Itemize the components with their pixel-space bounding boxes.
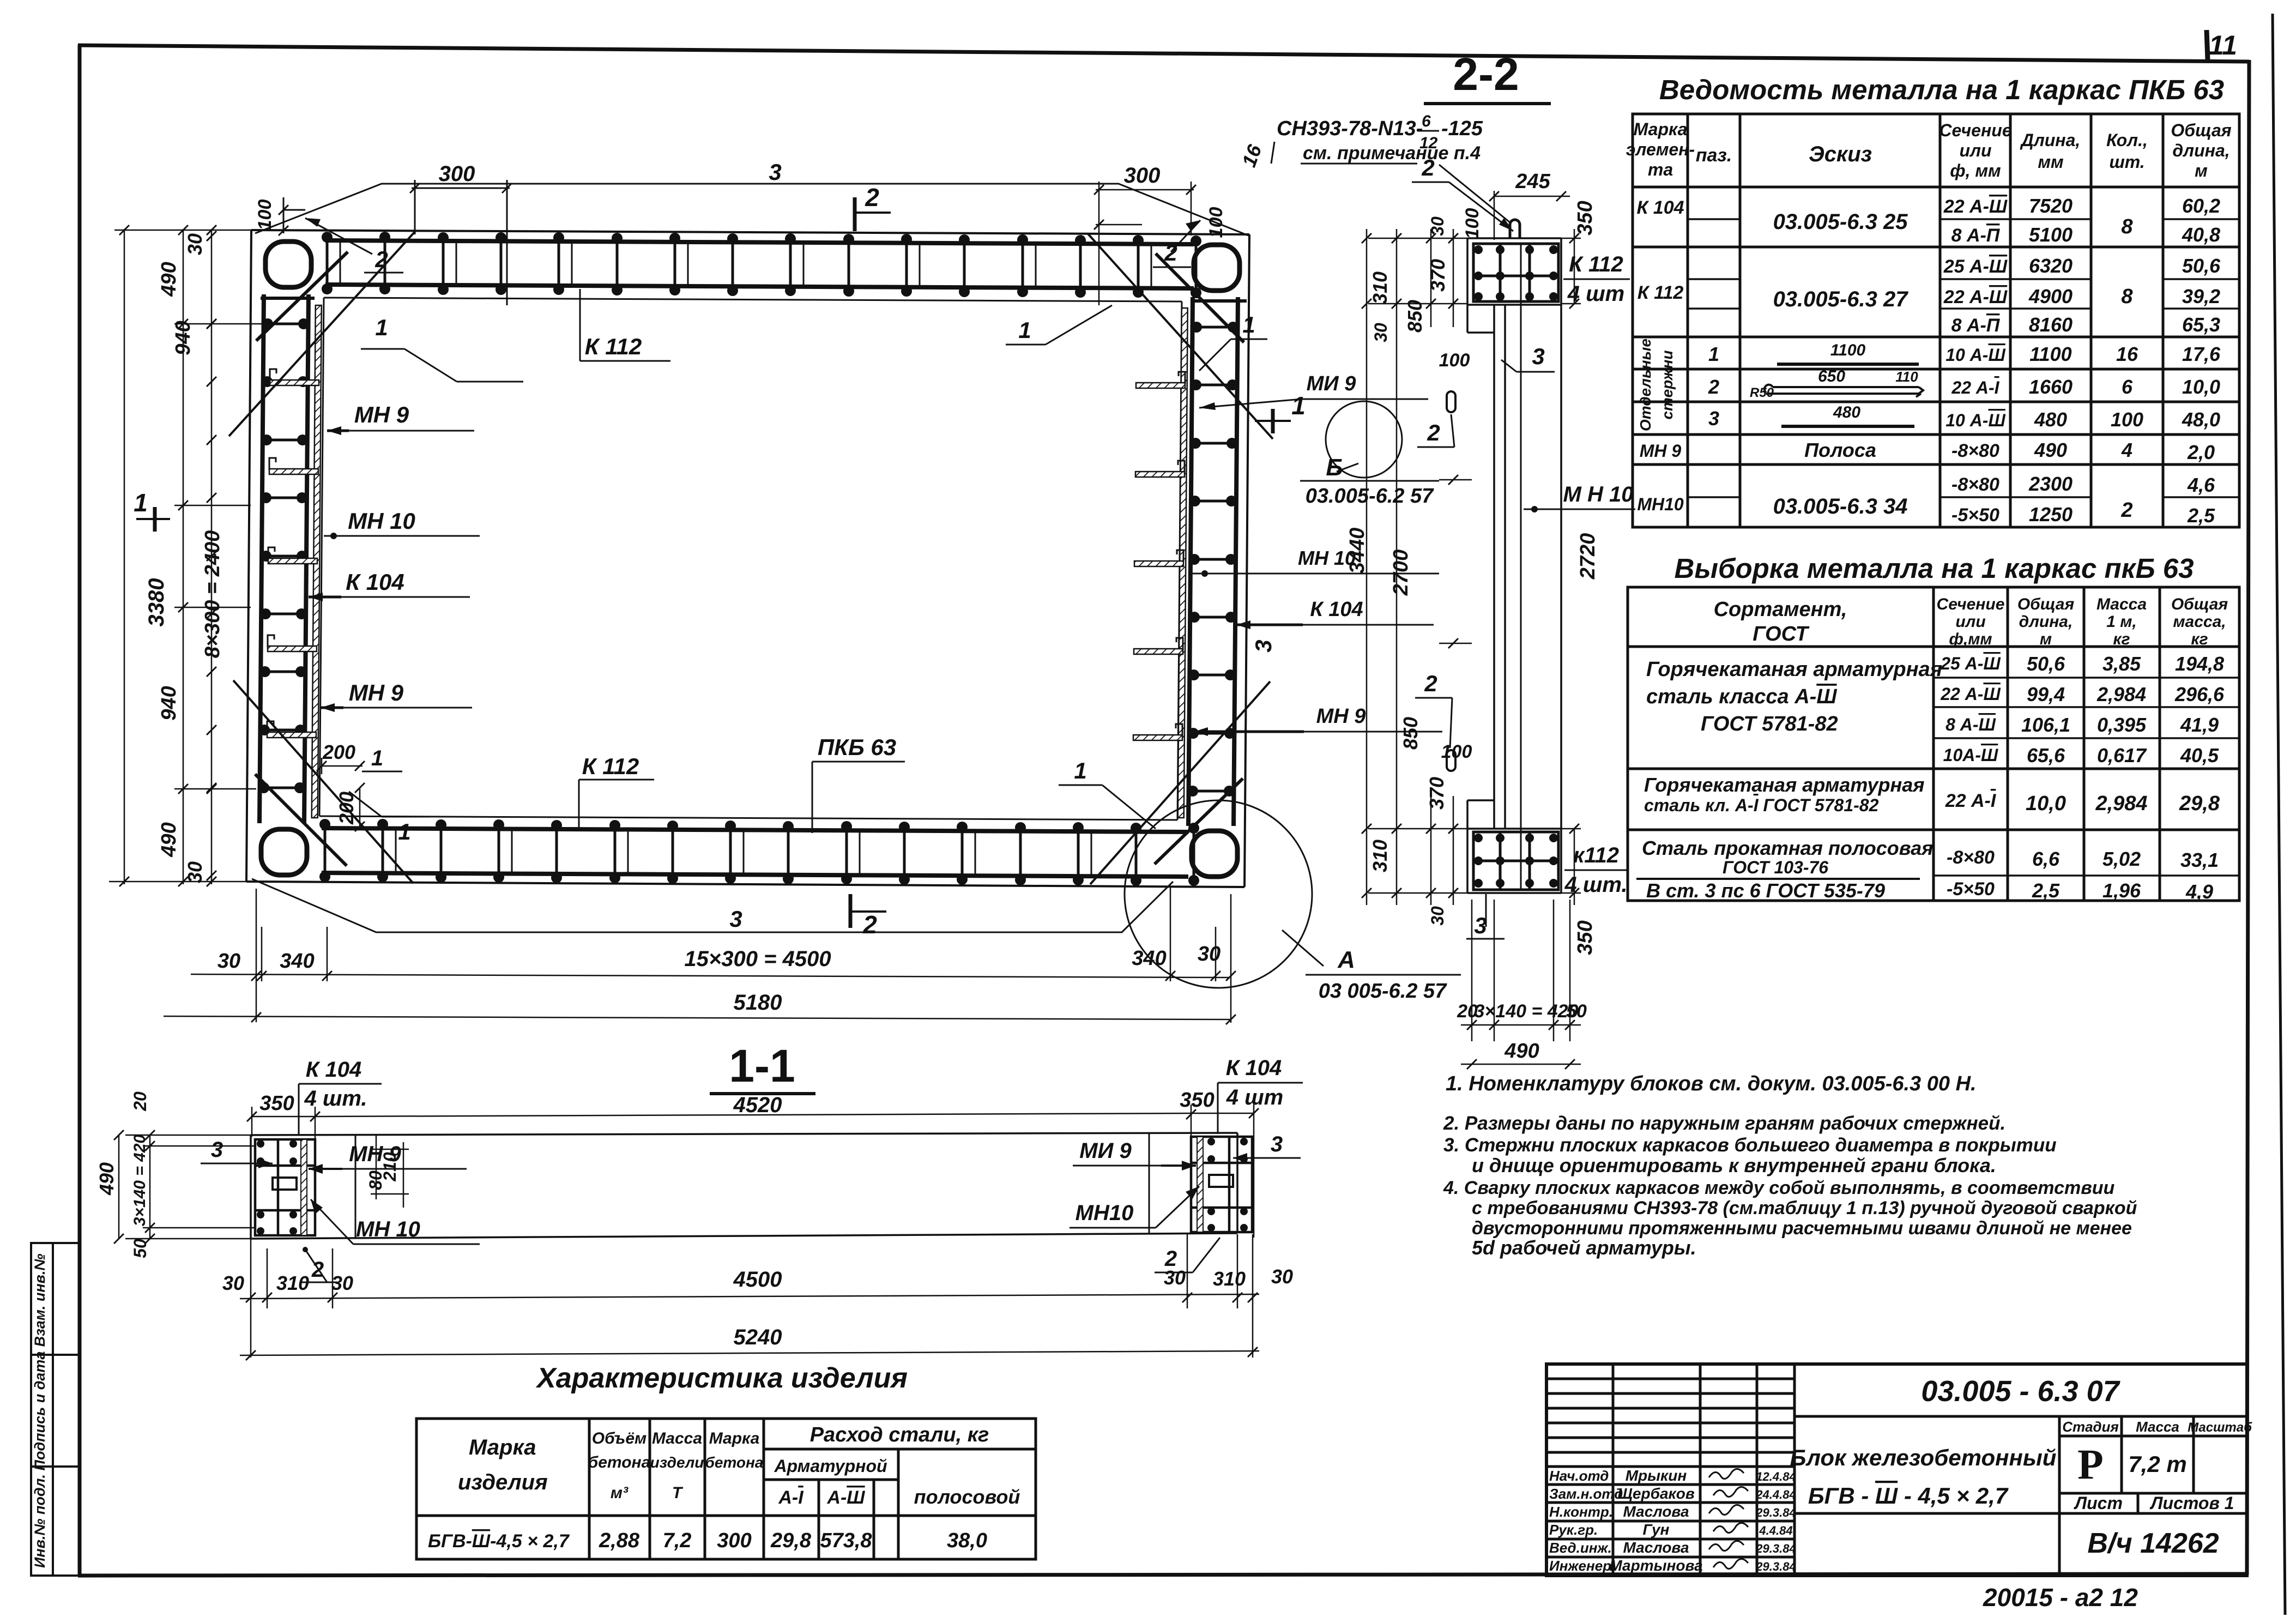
svg-text:МН10: МН10	[1637, 494, 1684, 514]
svg-text:сталь кл. А-I ГОСТ 5781-82: сталь кл. А-I ГОСТ 5781-82	[1644, 795, 1879, 815]
svg-text:20015 - а2 12: 20015 - а2 12	[1983, 1583, 2138, 1612]
svg-text:МН10: МН10	[1076, 1201, 1134, 1225]
svg-text:1: 1	[1074, 758, 1086, 783]
svg-text:100: 100	[2111, 408, 2143, 431]
label 1 top-left	[361, 315, 523, 382]
label PKB 63	[812, 734, 905, 833]
title block signatures	[1549, 1467, 1796, 1574]
svg-text:17,6: 17,6	[2182, 343, 2221, 365]
svg-text:к112: к112	[1573, 843, 1619, 867]
svg-text:310: 310	[1369, 271, 1391, 304]
svg-text:Сталь прокатная полосовая: Сталь прокатная полосовая	[1642, 837, 1933, 859]
svg-text:1: 1	[371, 746, 383, 770]
svg-text:Полоса: Полоса	[1804, 439, 1876, 461]
svg-text:МН 9: МН 9	[349, 680, 404, 705]
svg-text:100: 100	[255, 200, 275, 231]
svg-text:30: 30	[1428, 216, 1447, 236]
s11 cage separators	[355, 1134, 1149, 1239]
svg-text:длина,: длина,	[2172, 141, 2229, 160]
plan 8x300 chain ticks	[207, 319, 216, 793]
svg-text:8160: 8160	[2029, 313, 2073, 336]
svg-text:ГОСТ 5781-82: ГОСТ 5781-82	[1701, 713, 1838, 735]
svg-text:0,617: 0,617	[2097, 744, 2147, 767]
svg-text:490: 490	[2034, 439, 2067, 461]
table row K104	[1636, 195, 2220, 246]
svg-text:Щербаков: Щербаков	[1617, 1485, 1695, 1502]
svg-text:850: 850	[1399, 717, 1422, 750]
svg-text:МН 9: МН 9	[1640, 441, 1682, 461]
svg-text:7,2: 7,2	[663, 1529, 692, 1552]
svg-text:Сечение: Сечение	[1939, 120, 2011, 140]
svg-text:2-2: 2-2	[1453, 49, 1519, 100]
svg-text:110: 110	[1895, 369, 1918, 385]
svg-text:3: 3	[1532, 343, 1544, 369]
svg-text:15×300 = 4500: 15×300 = 4500	[684, 947, 831, 971]
svg-text:А: А	[1337, 946, 1355, 973]
svg-text:4 шт: 4 шт	[1226, 1085, 1284, 1109]
svg-text:3: 3	[1271, 1132, 1283, 1156]
svg-text:2: 2	[1427, 420, 1440, 445]
svg-text:МИ 9: МИ 9	[1307, 372, 1356, 395]
svg-text:22 А-I: 22 А-I	[1951, 378, 1999, 397]
s22 bottom cage K112	[1473, 832, 1558, 890]
table Vedomost headers	[1626, 119, 2232, 180]
label 2 top-left	[305, 218, 403, 273]
s22 left dim chains	[1367, 229, 1472, 905]
plan inner edge left	[319, 298, 324, 816]
svg-text:2,984: 2,984	[2095, 792, 2147, 815]
s22 right dim chain	[1561, 229, 1581, 905]
plan bar 3 outline top	[255, 184, 1248, 236]
svg-text:БГВ-Ш-4,5 × 2,7: БГВ-Ш-4,5 × 2,7	[428, 1531, 570, 1552]
plan bottom band stirrups and bar dots	[319, 819, 1199, 886]
plan inner edge right	[1177, 301, 1182, 820]
svg-text:3: 3	[1250, 639, 1276, 652]
svg-text:ПКБ 63: ПКБ 63	[818, 734, 896, 760]
svg-text:Гун: Гун	[1643, 1521, 1670, 1538]
svg-text:65,6: 65,6	[2027, 744, 2065, 767]
s11 right end cage K104	[1191, 1137, 1252, 1232]
svg-text:50: 50	[130, 1239, 150, 1258]
plan top band bar upper	[325, 240, 1194, 244]
svg-text:м: м	[2040, 630, 2052, 648]
svg-text:5100: 5100	[2029, 224, 2073, 246]
svg-text:элемен-: элемен-	[1626, 140, 1695, 159]
label MN10 right	[1191, 547, 1439, 577]
svg-text:100: 100	[1439, 350, 1470, 371]
svg-text:2. Размеры даны по наружным гр: 2. Размеры даны по наружным граням рабоч…	[1443, 1113, 2005, 1134]
sheet frame top border	[78, 45, 2249, 62]
sheet frame right border	[2247, 60, 2249, 1575]
plan corner loop bottom-left	[261, 829, 307, 875]
svg-text:МН 9: МН 9	[354, 402, 409, 427]
svg-text:6,6: 6,6	[2032, 848, 2060, 870]
s22 label 2 top	[1412, 155, 1513, 231]
svg-text:8×300 = 2400: 8×300 = 2400	[201, 530, 224, 659]
svg-text:1: 1	[134, 488, 148, 517]
svg-text:30: 30	[1198, 943, 1220, 966]
s22 label K112 bottom	[1564, 843, 1629, 897]
svg-text:бетона: бетона	[588, 1453, 651, 1471]
table row 25A-III	[1940, 653, 2224, 675]
svg-text:Р: Р	[2077, 1440, 2104, 1488]
svg-text:03.005-6.3 34: 03.005-6.3 34	[1773, 494, 1908, 518]
svg-text:3: 3	[769, 159, 781, 185]
table row -5x50	[1947, 879, 2213, 903]
plan top dim lines	[283, 180, 510, 305]
sheet frame left border	[78, 45, 82, 1576]
svg-text:48,0: 48,0	[2182, 408, 2220, 431]
table row K112	[1638, 255, 2221, 336]
svg-text:Листов 1: Листов 1	[2150, 1493, 2234, 1513]
page number tick	[2207, 30, 2208, 60]
svg-text:Объём: Объём	[592, 1429, 646, 1447]
plan inner edge top	[324, 298, 1182, 301]
label 1 bottom-right	[1059, 758, 1156, 829]
svg-text:стержни: стержни	[1659, 350, 1676, 419]
title block grid	[1546, 1364, 2247, 1576]
svg-text:Выборка металла на 1 карка: Выборка металла на 1 каркас пкБ 63	[1675, 553, 2194, 584]
svg-text:7,2 т: 7,2 т	[2128, 1451, 2186, 1477]
svg-text:296,6: 296,6	[2174, 683, 2225, 705]
svg-text:10 А-Ш: 10 А-Ш	[1945, 411, 2005, 430]
svg-text:573,8: 573,8	[820, 1529, 872, 1552]
svg-text:39,2: 39,2	[2182, 285, 2220, 307]
plan left band channel embeds	[267, 369, 319, 738]
svg-text:Маслова: Маслова	[1623, 1539, 1689, 1556]
table row bar3	[1708, 407, 2220, 431]
svg-text:1. Номенклатуру блоков: 1. Номенклатуру блоков см. докум. 03.005…	[1446, 1072, 1977, 1095]
svg-text:К 104: К 104	[1636, 197, 1684, 218]
sheet cut edge right	[2273, 14, 2285, 1615]
svg-text:мм: мм	[2038, 152, 2064, 172]
svg-text:5180: 5180	[734, 991, 782, 1015]
svg-text:30: 30	[184, 233, 206, 255]
svg-text:80: 80	[366, 1171, 385, 1190]
plan left band bar outer	[259, 294, 264, 823]
svg-text:3: 3	[211, 1138, 223, 1162]
s11 label K104 right	[1218, 1056, 1303, 1134]
svg-text:Сечение: Сечение	[1937, 595, 2005, 613]
plan top band stirrups and bar dots	[322, 232, 1201, 298]
svg-text:29.3.84: 29.3.84	[1755, 1560, 1796, 1573]
svg-text:03 005-6.2 57: 03 005-6.2 57	[1319, 980, 1447, 1003]
svg-text:Нач.отд: Нач.отд	[1549, 1468, 1609, 1484]
plan left band ladder rungs	[258, 318, 309, 793]
svg-text:8 А-П: 8 А-П	[1951, 315, 2001, 336]
svg-text:100: 100	[1206, 207, 1226, 238]
label 1 at 200 dim	[362, 746, 402, 771]
svg-text:22 А-Ш: 22 А-Ш	[1943, 196, 2008, 217]
svg-text:2,0: 2,0	[2187, 441, 2215, 463]
svg-text:Т: Т	[672, 1484, 684, 1502]
table Vyborka grid	[1628, 587, 2239, 901]
svg-text:Мартынова: Мартынова	[1609, 1557, 1702, 1574]
svg-text:3. Стержни плоских каркасов бо: 3. Стержни плоских каркасов большего диа…	[1443, 1135, 2057, 1156]
svg-text:100: 100	[1462, 208, 1483, 239]
s22 top cage K112	[1473, 244, 1558, 301]
table row 8A-III	[1945, 714, 2219, 736]
svg-text:А-Ш: А-Ш	[826, 1487, 865, 1508]
s22 bottom dims	[1461, 900, 1581, 1064]
svg-text:22 А-Ш: 22 А-Ш	[1940, 684, 2001, 704]
plan bottom band bar lower	[322, 873, 1188, 877]
s11 label 3 right	[1233, 1132, 1301, 1163]
svg-text:Горячекатаная арматурная: Горячекатаная арматурная	[1644, 774, 1924, 796]
table Kharakteristika data	[428, 1529, 987, 1552]
s22 label 3 bottom	[1466, 894, 1505, 939]
svg-text:30: 30	[217, 950, 240, 973]
svg-text:МН 10: МН 10	[356, 1217, 420, 1241]
section flag 1 right	[1255, 391, 1306, 433]
svg-text:Масса: Масса	[2136, 1419, 2179, 1435]
table row 22A-III	[1940, 683, 2225, 705]
plan right band channel embeds	[1133, 372, 1185, 740]
svg-text:Мрыкин: Мрыкин	[1626, 1467, 1687, 1484]
svg-text:30: 30	[1371, 323, 1391, 342]
table label otdelnye sterzhni	[1637, 339, 1676, 431]
s22 label 3	[1501, 343, 1555, 372]
label MN9 left upper	[327, 402, 474, 435]
svg-text:Арматурной: Арматурной	[774, 1456, 887, 1476]
svg-text:25 А-Ш: 25 А-Ш	[1940, 654, 2001, 673]
plan top band bar lower	[325, 285, 1194, 288]
svg-text:100: 100	[1441, 741, 1472, 762]
svg-text:03.005 - 6.3 07: 03.005 - 6.3 07	[1921, 1375, 2120, 1408]
svg-text:1: 1	[1708, 343, 1719, 365]
svg-text:Общая: Общая	[2171, 120, 2231, 140]
svg-text:2: 2	[1424, 671, 1437, 696]
svg-text:2300: 2300	[2028, 473, 2073, 495]
svg-text:940: 940	[172, 321, 195, 355]
plan 200 dims	[322, 758, 362, 829]
svg-text:МИ 9: МИ 9	[1079, 1139, 1132, 1163]
label 1 top-right a	[1006, 305, 1112, 345]
svg-text:940: 940	[158, 686, 180, 720]
svg-text:Отдельные: Отдельные	[1637, 339, 1654, 431]
svg-text:масса,: масса,	[2173, 613, 2226, 631]
svg-text:Масса: Масса	[2096, 595, 2147, 613]
svg-text:310: 310	[1213, 1268, 1246, 1290]
svg-text:1: 1	[1291, 391, 1306, 420]
svg-text:2,984: 2,984	[2096, 683, 2146, 705]
svg-text:Марка: Марка	[469, 1435, 536, 1459]
svg-text:8: 8	[2121, 285, 2133, 308]
svg-text:-8×80: -8×80	[1951, 474, 1999, 495]
plan corner bar 2 top-left	[256, 252, 348, 341]
svg-text:10А-Ш: 10А-Ш	[1943, 745, 1998, 765]
svg-text:50,6: 50,6	[2027, 653, 2065, 675]
svg-text:Лист: Лист	[2074, 1493, 2123, 1513]
svg-text:Марка: Марка	[709, 1429, 760, 1447]
svg-text:12.4.84: 12.4.84	[1756, 1470, 1796, 1483]
svg-text:Взам. инв.№: Взам. инв.№	[32, 1254, 48, 1347]
s11 left dims	[119, 1135, 256, 1239]
svg-text:-5×50: -5×50	[1951, 505, 1999, 526]
svg-text:К 104: К 104	[1310, 598, 1363, 621]
s11 label 2 right	[1155, 1238, 1220, 1272]
svg-text:11: 11	[2209, 30, 2237, 61]
svg-text:2: 2	[862, 910, 877, 939]
svg-text:Стадия: Стадия	[2062, 1419, 2119, 1435]
s11 top dims	[252, 1105, 1254, 1238]
svg-text:2,88: 2,88	[599, 1529, 640, 1552]
plan corner bar 2 bottom-left	[255, 774, 347, 866]
svg-text:Рук.гр.: Рук.гр.	[1549, 1522, 1598, 1538]
svg-text:6: 6	[1422, 112, 1431, 130]
svg-text:22 А-Ш: 22 А-Ш	[1943, 287, 2008, 307]
note SN393	[1271, 112, 1510, 222]
svg-text:4500: 4500	[733, 1268, 782, 1292]
svg-text:99,4: 99,4	[2027, 683, 2065, 705]
svg-text:бетона: бетона	[705, 1454, 763, 1471]
svg-text:30: 30	[1164, 1266, 1186, 1289]
callout A	[1282, 930, 1461, 1003]
svg-text:310: 310	[1369, 840, 1391, 872]
label MN9 left lower	[321, 680, 472, 712]
svg-text:2: 2	[1708, 376, 1719, 398]
label 1 bottom-left	[349, 792, 431, 844]
label K104 left	[309, 569, 470, 601]
s11 left end cage K104	[255, 1139, 315, 1235]
svg-text:6320: 6320	[2029, 255, 2073, 277]
svg-text:29.3.84: 29.3.84	[1755, 1506, 1796, 1519]
svg-text:50,6: 50,6	[2182, 255, 2221, 277]
svg-text:К 112: К 112	[1569, 252, 1623, 276]
svg-text:200: 200	[335, 792, 358, 825]
plan right band bar outer	[1234, 297, 1238, 826]
svg-text:4.4.84: 4.4.84	[1759, 1524, 1792, 1537]
svg-text:4520: 4520	[733, 1093, 782, 1117]
svg-text:300: 300	[1124, 164, 1161, 188]
svg-text:490: 490	[158, 822, 180, 857]
svg-text:2,5: 2,5	[2187, 504, 2215, 527]
svg-text:Зам.н.отд: Зам.н.отд	[1549, 1486, 1623, 1502]
svg-text:М Н 10: М Н 10	[1563, 482, 1634, 506]
detail circle B	[1326, 401, 1402, 478]
title block outer	[1546, 1364, 2247, 1576]
plan outer edge bottom	[246, 882, 1244, 887]
svg-text:5d рабочей арматуры.: 5d рабочей арматуры.	[1472, 1236, 1696, 1259]
section 2-2 title	[1424, 49, 1551, 104]
table Vedomost grid	[1633, 114, 2239, 527]
label K104 right	[1236, 598, 1434, 629]
plan corner bar bottom-left	[233, 680, 413, 883]
svg-text:-8×80: -8×80	[1951, 441, 1999, 461]
svg-text:10,0: 10,0	[2026, 792, 2066, 815]
plan outer edge top	[251, 230, 1249, 234]
s11 label 3 left	[201, 1138, 273, 1168]
table Vyborka strip name	[1636, 837, 1933, 902]
s22 label 2 upper	[1417, 414, 1454, 447]
svg-text:Кол.,: Кол.,	[2106, 130, 2148, 150]
svg-text:1,96: 1,96	[2102, 879, 2141, 902]
svg-text:-125: -125	[1441, 117, 1483, 140]
s11 bottom dims	[240, 1234, 1259, 1357]
svg-text:350: 350	[259, 1092, 294, 1115]
svg-text:ГОСТ: ГОСТ	[1753, 623, 1809, 645]
svg-text:R50: R50	[1750, 385, 1774, 400]
table Vyborka headers	[1714, 595, 2228, 648]
s22 label 2 lower	[1415, 671, 1452, 748]
svg-text:40,5: 40,5	[2180, 744, 2219, 767]
svg-text:38,0: 38,0	[947, 1529, 987, 1552]
section flag 1 left	[134, 488, 170, 532]
s11 label MN9 right	[1073, 1139, 1196, 1171]
svg-text:4: 4	[2121, 439, 2132, 461]
svg-text:2720: 2720	[1576, 533, 1599, 580]
left stamp boxes	[31, 1243, 80, 1576]
plan corner bar 2 bottom-right	[1155, 779, 1243, 864]
svg-text:3380: 3380	[144, 578, 168, 627]
label 2 top-right	[1153, 220, 1200, 267]
svg-text:300: 300	[717, 1529, 751, 1552]
svg-text:К 112: К 112	[585, 334, 642, 359]
svg-text:25 А-Ш: 25 А-Ш	[1943, 256, 2008, 277]
svg-text:1100: 1100	[1830, 341, 1866, 359]
svg-text:м: м	[2195, 161, 2208, 180]
svg-text:издели: издели	[650, 1454, 704, 1471]
svg-text:МН 9: МН 9	[1316, 705, 1366, 728]
svg-text:или: или	[1960, 141, 1992, 160]
svg-text:310: 310	[276, 1272, 309, 1294]
svg-text:490: 490	[1504, 1040, 1539, 1063]
svg-text:4,6: 4,6	[2187, 474, 2215, 496]
svg-text:200: 200	[322, 741, 355, 763]
svg-text:ГОСТ 103-76: ГОСТ 103-76	[1723, 858, 1828, 877]
svg-text:0,395: 0,395	[2097, 714, 2147, 736]
s22 bar2 end upper	[1447, 391, 1455, 412]
svg-text:Расход стали, кг: Расход стали, кг	[810, 1423, 989, 1446]
svg-text:22 А-I: 22 А-I	[1945, 791, 1997, 811]
s22 dim 245	[1494, 170, 1570, 196]
svg-text:СН393-78-N13-: СН393-78-N13-	[1277, 117, 1423, 140]
svg-text:8 А-П: 8 А-П	[1951, 225, 2001, 246]
svg-text:В ст. 3 пс 6 ГОСТ 535-79: В ст. 3 пс 6 ГОСТ 535-79	[1646, 879, 1885, 902]
svg-text:Горячекатаная арматурная: Горячекатаная арматурная	[1646, 658, 1942, 681]
svg-text:6: 6	[2122, 376, 2133, 398]
sketch bar2	[1765, 385, 1923, 397]
svg-text:Н.контр.: Н.контр.	[1549, 1504, 1613, 1520]
svg-text:1: 1	[1018, 317, 1031, 343]
plan right band ladder rungs	[1187, 322, 1238, 797]
section flag 2 top	[855, 183, 891, 231]
svg-text:106,1: 106,1	[2021, 714, 2070, 736]
s11 label 2 left	[301, 1247, 337, 1282]
svg-text:4. Сварку плоских каркасов меж: 4. Сварку плоских каркасов между собой в…	[1443, 1178, 2115, 1198]
plan bottom dim lines	[164, 888, 1231, 1023]
svg-text:30: 30	[184, 861, 206, 883]
svg-text:Блок железобетонный: Блок железобетонный	[1790, 1445, 2057, 1470]
svg-text:8 А-Ш: 8 А-Ш	[1945, 715, 1996, 734]
svg-text:1: 1	[1242, 312, 1255, 337]
svg-text:850: 850	[1404, 300, 1426, 333]
svg-text:2: 2	[2120, 499, 2132, 522]
svg-text:4900: 4900	[2028, 285, 2073, 307]
svg-text:Длина,: Длина,	[2020, 130, 2081, 150]
svg-text:50: 50	[1566, 1001, 1587, 1022]
svg-text:480: 480	[1833, 403, 1860, 421]
svg-text:7520: 7520	[2029, 195, 2073, 217]
plan corner bar bottom-right	[1090, 681, 1270, 884]
svg-text:300: 300	[439, 162, 475, 186]
svg-text:03.005-6.3 27: 03.005-6.3 27	[1773, 287, 1909, 311]
svg-text:Б: Б	[1326, 454, 1343, 481]
svg-text:Инв.№ подл.: Инв.№ подл.	[32, 1474, 48, 1568]
svg-text:350: 350	[1574, 920, 1597, 955]
svg-text:-8×80: -8×80	[1947, 847, 1995, 868]
svg-text:33,1: 33,1	[2180, 849, 2219, 871]
